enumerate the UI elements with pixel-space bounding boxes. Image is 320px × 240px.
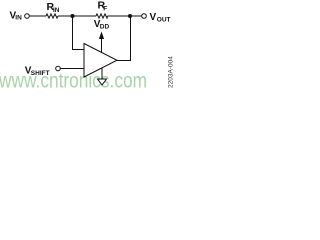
svg-text:F: F (103, 6, 107, 13)
svg-text:DD: DD (100, 23, 110, 30)
svg-text:OUT: OUT (157, 17, 171, 24)
svg-text:IN: IN (15, 15, 22, 22)
svg-text:2203A-004: 2203A-004 (168, 56, 175, 88)
svg-text:IN: IN (53, 7, 60, 14)
svg-text:www.cntronics.com: www.cntronics.com (0, 69, 147, 93)
svg-text:SHIFT: SHIFT (31, 70, 50, 77)
svg-text:V: V (150, 12, 157, 23)
